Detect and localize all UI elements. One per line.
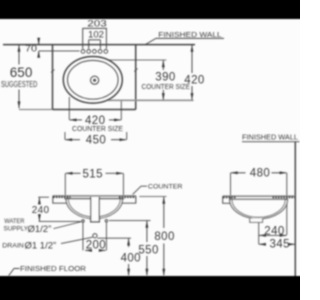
- dimension 390 (sink cutout depth): [108, 60, 176, 100]
- finished floor line / letterbox band bottom: [0, 276, 303, 300]
- counter front grey line (420 bottom extension): [108, 99, 194, 101]
- svg-text:450: 450: [86, 134, 106, 146]
- dimension 800 (floor to counter): [154, 197, 174, 276]
- faucet hole 5: [104, 50, 108, 54]
- dimension 345 (drain to wall, side): [259, 239, 295, 251]
- finished wall underline: [242, 141, 300, 143]
- svg-text:Ø1 1/2”: Ø1 1/2”: [25, 241, 57, 252]
- drain height extension line: [97, 237, 131, 239]
- svg-text:390: 390: [155, 72, 175, 84]
- svg-text:COUNTER SIZE: COUNTER SIZE: [72, 126, 123, 133]
- svg-text:480: 480: [250, 168, 270, 180]
- svg-text:345: 345: [270, 239, 290, 251]
- svg-text:COUNTER: COUNTER: [148, 184, 183, 191]
- svg-text:FINISHED WALL: FINISHED WALL: [158, 30, 221, 39]
- finished floor label + leader: [20, 264, 86, 273]
- finished wall line (plan): [3, 44, 195, 46]
- slab hatch left: [53, 196, 70, 198]
- dimension 240 (counter to supply): [32, 197, 81, 221]
- counter label + leader: [148, 184, 183, 191]
- dimension 102 (faucet holes inner): [88, 29, 104, 48]
- drain leader: [61, 237, 93, 243]
- svg-text:FINISHED WALL: FINISHED WALL: [242, 132, 298, 141]
- dimension 650 SUGGESTED: [1, 45, 52, 110]
- svg-text:SUPPLY: SUPPLY: [4, 225, 29, 232]
- counter size label (bottom): [72, 126, 123, 133]
- counter height extension line: [139, 196, 166, 198]
- dimension 515 (rim width front): [65, 168, 123, 195]
- slab hatch left (side): [223, 196, 236, 198]
- counter edge profile (side left end): [223, 196, 230, 203]
- letterbox band top: [0, 0, 303, 19]
- svg-text:WATER: WATER: [4, 218, 25, 225]
- finished wall label (plan): [158, 30, 221, 39]
- basin bowl (side) inner: [232, 199, 285, 217]
- counter slab (front): top line: [53, 195, 136, 197]
- wall line (side): [294, 142, 296, 280]
- faucet hole 2: [87, 50, 91, 54]
- svg-text:203: 203: [87, 19, 106, 30]
- drain stub (side): [250, 218, 263, 222]
- faucet hole 4: [98, 50, 102, 54]
- break tick on counter left edge: [51, 70, 55, 73]
- slab hatch right: [119, 196, 136, 198]
- finished wall label underline + leader: [146, 38, 224, 44]
- dimension 480 (bowl width side): [231, 168, 287, 235]
- svg-text:SUGGESTED: SUGGESTED: [1, 79, 37, 89]
- svg-text:240: 240: [264, 226, 284, 238]
- svg-text:420: 420: [184, 74, 204, 86]
- basin rim line (front): [64, 198, 124, 200]
- counter slab (side): top line: [223, 195, 295, 197]
- dimension 450 (rim width): [65, 132, 127, 146]
- dimension 550 (floor to supply): [138, 221, 158, 276]
- svg-text:DRAIN: DRAIN: [2, 242, 24, 249]
- svg-text:515: 515: [83, 168, 103, 180]
- svg-text:Ø1/2”: Ø1/2”: [28, 224, 52, 235]
- dimension 70 (wall to holes): [25, 39, 80, 58]
- drain ring: [91, 76, 99, 84]
- counter outline (plan) : left, right, front edges: [53, 45, 136, 110]
- break tick on counter right edge: [134, 69, 138, 72]
- drain tube: [91, 197, 100, 222]
- basin bowl (front) outer: [66, 199, 122, 219]
- basin rim line (side): [229, 198, 288, 200]
- drain dot: [93, 79, 96, 82]
- drain outlet circle: [93, 234, 97, 238]
- counter size label (right): [142, 84, 191, 91]
- svg-text:550: 550: [138, 244, 158, 256]
- svg-text:650: 650: [10, 65, 33, 80]
- dimension 200 (supply spacing): [83, 222, 107, 251]
- basin bowl (side) outer: [230, 199, 288, 218]
- slab hatch right (side): [273, 196, 295, 198]
- svg-text:800: 800: [154, 231, 174, 243]
- faucet hole 3: [93, 50, 97, 54]
- faucet hole 1: [81, 50, 85, 54]
- finished wall label (side): [242, 132, 298, 141]
- water supply label: [4, 218, 52, 235]
- basin bowl (front) inner: [68, 199, 120, 217]
- svg-text:102: 102: [88, 29, 104, 40]
- dimension 240 (drain to bowl edge, side): [259, 223, 287, 245]
- supply height extension line: [109, 220, 151, 222]
- svg-text:240: 240: [32, 205, 50, 216]
- basin outer rim ellipse: [63, 57, 122, 104]
- svg-text:COUNTER SIZE: COUNTER SIZE: [142, 84, 191, 91]
- basin inner bowl ellipse: [68, 60, 119, 99]
- svg-text:200: 200: [86, 240, 106, 252]
- water supply dot right: [105, 220, 108, 223]
- water supply dot left: [82, 220, 85, 223]
- water supply leader: [54, 222, 82, 229]
- dimension 400 (floor to drain): [121, 239, 141, 276]
- slab bottom + side edges: [53, 196, 136, 203]
- dimension 420 horizontal (counter width): [69, 97, 121, 127]
- drain label: [2, 241, 56, 252]
- dimension 203 (faucet holes outer): [82, 19, 107, 49]
- svg-text:FINISHED FLOOR: FINISHED FLOOR: [20, 264, 86, 273]
- svg-text:70: 70: [25, 43, 37, 54]
- dimension 420 vertical (counter depth): [184, 45, 204, 100]
